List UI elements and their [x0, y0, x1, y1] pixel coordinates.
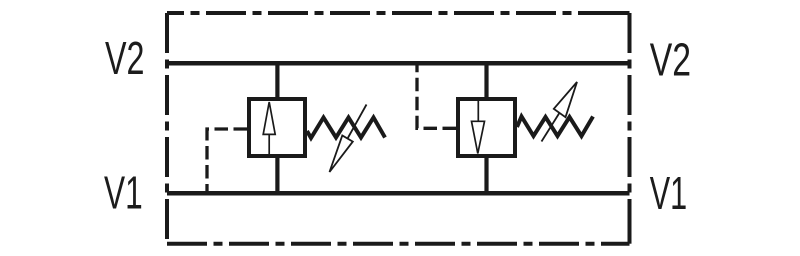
svg-text:V1: V1 — [104, 167, 143, 219]
svg-text:V1: V1 — [650, 167, 687, 219]
svg-text:V2: V2 — [650, 34, 691, 86]
svg-text:V2: V2 — [105, 32, 145, 84]
